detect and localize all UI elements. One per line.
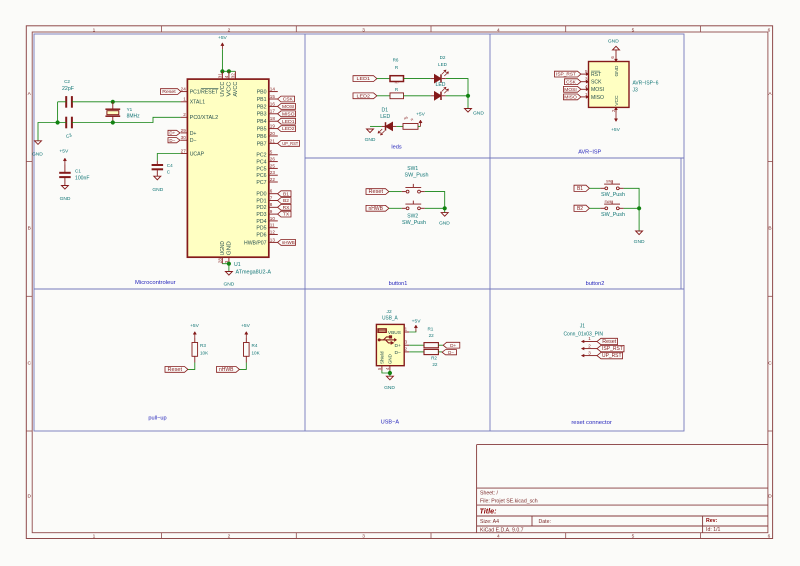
svg-text:3: 3 (362, 27, 365, 33)
svg-text:AVR−ISP−6: AVR−ISP−6 (633, 80, 659, 86)
svg-text:3: 3 (362, 534, 365, 540)
junction button2 (637, 206, 641, 210)
wire caps to GND (38, 123, 66, 141)
svg-text:10K: 10K (252, 350, 261, 355)
svg-text:R4: R4 (252, 343, 258, 348)
svg-text:20: 20 (270, 131, 276, 136)
J3 pin 3 SCK (581, 81, 589, 83)
wire Reset to SW1 (389, 191, 402, 193)
svg-text:PC7: PC7 (256, 180, 266, 186)
wire R7 to D3 (404, 95, 431, 97)
power +5V (C1) (64, 160, 66, 165)
global label B2 (button2) (574, 205, 589, 211)
diode D2 LED (435, 75, 442, 83)
svg-text:PD2: PD2 (256, 205, 266, 211)
U1 pin 27 UCAP (left) (181, 153, 188, 155)
USB icon (J2) (378, 329, 387, 333)
svg-text:PC4: PC4 (256, 160, 266, 166)
svg-text:UP_RST: UP_RST (602, 353, 622, 359)
svg-text:PD1: PD1 (256, 198, 266, 204)
resistor R6 (390, 76, 404, 82)
svg-text:2: 2 (228, 27, 231, 33)
capacitor C3 (65, 117, 67, 129)
section box divider vertical x=305 (304, 34, 306, 431)
svg-text:24: 24 (181, 87, 187, 92)
wire XTAL1 net (72, 101, 181, 103)
U1 pin 15 PB1 (right) (269, 98, 278, 100)
svg-text:GND: GND (227, 241, 233, 255)
global label Reset (J1) (597, 338, 618, 344)
svg-text:D+: D+ (450, 343, 456, 348)
U1 pin 26 PC4 (right) (269, 161, 278, 163)
wire VCC rail horizontal (222, 70, 235, 72)
svg-text:15: 15 (270, 94, 276, 99)
svg-text:UVCC: UVCC (220, 81, 226, 96)
svg-text:Reset: Reset (369, 189, 384, 195)
wire SW4 to junction (624, 207, 640, 209)
wire GND to D1 (370, 125, 382, 127)
svg-text:PC2: PC2 (256, 153, 266, 159)
wire SW1 to junction (425, 192, 445, 209)
svg-text:UGND: UGND (220, 241, 226, 255)
U1 pin 4 VCC (top) (228, 71, 230, 79)
svg-text:J2: J2 (387, 309, 392, 315)
ground symbol (button2) (636, 231, 643, 235)
svg-text:6: 6 (768, 27, 771, 33)
wire R5 to +5V (418, 125, 421, 127)
wire D+ to R1 (409, 344, 424, 346)
svg-text:22: 22 (429, 333, 435, 338)
svg-text:LED: LED (438, 62, 448, 67)
svg-text:PC1/RESET: PC1/RESET (190, 90, 219, 96)
SW4 pin stubs (600, 207, 604, 209)
global label B1 (button2) (574, 185, 589, 191)
svg-text:PC5: PC5 (256, 166, 266, 172)
J1 pin 2 (582, 348, 597, 350)
svg-text:1: 1 (93, 534, 96, 540)
svg-text:D: D (768, 493, 772, 499)
global label nHWB (PD7) (278, 240, 296, 246)
junction U1 ground (227, 262, 231, 266)
wire SW2 to junction (425, 207, 445, 209)
wire LED2 to R7 (377, 95, 390, 97)
U1 pin 23 PC6 (right) (269, 174, 278, 176)
svg-text:+5V: +5V (218, 35, 228, 41)
svg-text:7: 7 (270, 195, 273, 200)
global label Reset (pull-up) (165, 367, 188, 373)
svg-text:D+: D+ (190, 131, 197, 137)
svg-text:GND: GND (388, 354, 393, 364)
svg-text:PB3: PB3 (257, 112, 267, 118)
svg-text:MISO: MISO (282, 111, 295, 116)
U1 pin 24 PC1/RESET (left) (181, 91, 188, 93)
svg-text:22pF: 22pF (62, 86, 74, 92)
svg-text:Date:: Date: (539, 519, 551, 525)
svg-text:10: 10 (270, 216, 276, 221)
wire button2 to GND (638, 208, 640, 231)
wire XTAL2 net (72, 117, 181, 122)
U1 pin 12 PD6 (right) (269, 234, 278, 236)
J1 pin 3 (582, 355, 597, 357)
svg-text:8: 8 (270, 202, 273, 207)
U1 pin 1 XTAL1 (left) (181, 101, 188, 103)
svg-text:SW_Push: SW_Push (601, 192, 625, 198)
wire R1 to D+ label (438, 344, 443, 346)
svg-text:C1: C1 (75, 169, 81, 174)
U1 pin 10 PD4 (right) (269, 220, 278, 222)
U1 pin 32 AVCC (top) (234, 71, 236, 79)
section box: outer sheet regions (34, 34, 684, 431)
global label MISO (ISP) (564, 94, 581, 100)
svg-text:Rev:: Rev: (706, 518, 718, 524)
resistor R7 (390, 93, 404, 99)
J3 pin 4 MOSI (581, 88, 589, 90)
svg-text:D2: D2 (440, 55, 446, 60)
global label UP_RST (J1) (597, 352, 623, 358)
wire +5V to VCC pins (221, 49, 223, 71)
global label B2 (PD1) (278, 198, 291, 204)
wire VBUS to +5V (409, 331, 416, 333)
global label D- (USB) (442, 350, 456, 355)
global label UP_RST (PB7) (278, 141, 300, 147)
svg-text:B1: B1 (577, 186, 583, 192)
svg-text:USB_A: USB_A (382, 315, 398, 321)
svg-text:4: 4 (497, 534, 500, 540)
svg-text:Conn_01x03_PIN: Conn_01x03_PIN (563, 332, 603, 338)
svg-text:button1: button1 (389, 281, 408, 287)
resistor R5 (403, 124, 418, 130)
svg-text:SW2: SW2 (407, 214, 418, 220)
svg-text:C: C (768, 360, 772, 366)
global label LED2 (PB5) (278, 126, 296, 132)
svg-text:HWB/P07: HWB/P07 (244, 240, 267, 246)
svg-text:11: 11 (270, 223, 275, 228)
svg-text:Title:: Title: (480, 506, 498, 515)
svg-text:PC0/XTAL2: PC0/XTAL2 (190, 115, 219, 121)
wire nHWB to SW2 (389, 207, 402, 209)
J3 pin 6 GND (top) (615, 55, 617, 62)
svg-text:32: 32 (231, 73, 236, 79)
wire D- to R2 (409, 351, 424, 353)
ground symbol (D1) (367, 129, 374, 133)
svg-text:10K: 10K (200, 350, 209, 355)
svg-text:22: 22 (270, 177, 276, 182)
svg-text:+5V: +5V (59, 148, 69, 154)
ground symbol (leds) (465, 109, 472, 113)
global label nHWB (pull-up) (217, 367, 240, 373)
svg-text:6: 6 (270, 189, 273, 194)
svg-text:nHWB: nHWB (219, 367, 234, 373)
U1 pin 8 PD2 (right) (269, 206, 278, 208)
svg-text:GND: GND (634, 239, 645, 245)
section box divider horizontal y=158 (305, 157, 684, 159)
wire R3 to Reset (187, 363, 195, 370)
D1 pin stubs (382, 125, 386, 127)
svg-text:LED2: LED2 (282, 126, 295, 131)
U1 pin 17 PB3 (right) (269, 113, 278, 115)
wire J2 shield to gnd (382, 371, 390, 374)
svg-text:B: B (28, 226, 31, 232)
svg-text:28: 28 (217, 258, 222, 264)
svg-text:C4: C4 (167, 163, 173, 168)
svg-text:Reset: Reset (602, 339, 617, 345)
svg-text:AVCC: AVCC (233, 81, 239, 96)
global label LED1 (PB4) (278, 118, 296, 124)
svg-text:C: C (27, 360, 31, 366)
svg-text:MISO: MISO (591, 95, 604, 101)
svg-text:29: 29 (181, 128, 187, 133)
svg-text:Size: A4: Size: A4 (480, 519, 499, 525)
svg-text:1: 1 (93, 27, 96, 33)
J1 pin 1 (582, 341, 597, 343)
svg-text:B1: B1 (283, 191, 289, 197)
svg-text:5: 5 (270, 150, 273, 155)
wire D2 to corner (446, 79, 468, 96)
svg-text:13: 13 (270, 237, 276, 242)
svg-text:LED: LED (380, 114, 390, 120)
svg-text:2: 2 (183, 112, 186, 117)
svg-text:nHWB: nHWB (369, 206, 384, 212)
capacitor C4 (156, 161, 158, 165)
svg-text:pull−up: pull−up (148, 416, 166, 422)
global label MOSI (PB2) (278, 104, 296, 110)
svg-text:reset connector: reset connector (571, 420, 612, 426)
global label MOSI (ISP) (564, 86, 581, 92)
svg-text:MISO: MISO (564, 95, 577, 100)
svg-text:PD4: PD4 (256, 219, 266, 225)
svg-text:SW4: SW4 (605, 200, 612, 204)
svg-text:J3: J3 (633, 87, 639, 93)
svg-text:6: 6 (768, 534, 771, 540)
global label nHWB (button1) (366, 205, 389, 211)
junction VCC (227, 69, 231, 73)
svg-text:PB1: PB1 (257, 97, 267, 103)
U1 pin 30 D− (left) (181, 139, 188, 141)
global label CSK (PB1) (278, 96, 295, 102)
connector J3 body (589, 62, 630, 108)
svg-text:8MHz: 8MHz (127, 114, 140, 120)
svg-text:VBUS: VBUS (388, 330, 402, 336)
svg-text:18: 18 (270, 116, 276, 121)
svg-text:GND: GND (152, 187, 163, 193)
U1 pin 3 GND (bottom) (228, 257, 230, 264)
svg-text:MOSI: MOSI (282, 104, 295, 109)
junction UVCC (220, 69, 224, 73)
section box divider horizontal y=289 (34, 288, 684, 290)
svg-text:MOSI: MOSI (591, 87, 604, 93)
svg-text:B2: B2 (577, 206, 583, 212)
svg-text:File: Projet SE.kicad_sch: File: Projet SE.kicad_sch (480, 498, 538, 504)
svg-text:D+: D+ (395, 343, 402, 349)
svg-text:2: 2 (228, 534, 231, 540)
svg-text:RST: RST (591, 72, 601, 78)
svg-text:1: 1 (183, 97, 186, 102)
svg-text:GND: GND (32, 151, 43, 157)
J3 pin 2 VCC (bottom) (615, 107, 617, 112)
svg-text:R6: R6 (393, 57, 399, 62)
global label B1 (PD0) (278, 191, 291, 197)
svg-text:23: 23 (270, 170, 276, 175)
resistor R3 (194, 338, 196, 343)
svg-text:Y1: Y1 (127, 107, 133, 112)
global label LED2 (leds) (353, 93, 377, 99)
svg-text:CSK: CSK (566, 79, 577, 84)
svg-text:R7: R7 (395, 80, 399, 84)
J3 pin 1 MISO (581, 96, 589, 98)
svg-text:D−: D− (190, 138, 197, 144)
svg-text:PB5: PB5 (257, 127, 267, 133)
U1 pin 28 UGND (bottom) (221, 257, 223, 264)
global label LED1 (leds) (353, 76, 377, 82)
junction caps left (56, 120, 60, 124)
wire junction to GND (467, 96, 469, 109)
diode D3 LED (435, 92, 442, 100)
svg-text:GND: GND (384, 385, 395, 391)
wire R6 to D2 (404, 78, 431, 80)
ground symbol (USB) (386, 376, 393, 380)
U1 pin 22 PC7 (right) (269, 181, 278, 183)
svg-text:XTAL1: XTAL1 (190, 100, 206, 106)
svg-text:TX: TX (283, 212, 290, 218)
svg-text:MOSI: MOSI (564, 87, 577, 92)
svg-text:J1: J1 (580, 324, 586, 330)
U1 pin 16 PB2 (right) (269, 105, 278, 107)
wire SW3 to junction (624, 188, 640, 208)
svg-text:+5V: +5V (241, 323, 251, 329)
global label Reset (PC1) (161, 89, 181, 95)
svg-text:5: 5 (632, 27, 635, 33)
svg-text:Microcontroleur: Microcontroleur (135, 280, 176, 286)
svg-text:B: B (768, 226, 771, 232)
svg-text:D1: D1 (382, 108, 389, 114)
wire button1 to GND (444, 208, 446, 212)
svg-text:16: 16 (270, 101, 276, 106)
svg-text:R3: R3 (200, 343, 206, 348)
svg-text:D−: D− (448, 350, 454, 355)
power +5V (MCU VCC rail) (221, 44, 223, 49)
svg-text:SW3: SW3 (606, 179, 613, 183)
global label CSK (ISP) (565, 79, 581, 85)
svg-text:Reset: Reset (162, 89, 176, 94)
svg-text:C2: C2 (64, 79, 70, 84)
svg-text:LED1: LED1 (357, 76, 371, 82)
svg-text:21: 21 (270, 138, 276, 143)
svg-text:PB2: PB2 (257, 104, 267, 110)
J2 pin 5 Shield (bottom) (381, 366, 383, 371)
J2 pin 3 D+ (404, 344, 409, 346)
svg-text:LED1: LED1 (282, 119, 295, 124)
SW2 pin stubs (402, 207, 406, 209)
svg-text:ISP_RST: ISP_RST (602, 346, 623, 352)
svg-text:27: 27 (181, 148, 187, 153)
svg-text:31: 31 (218, 73, 223, 79)
resistor R1 (424, 343, 438, 348)
U1 pin 13 HWB/P07 (right) (269, 241, 278, 243)
svg-text:19: 19 (270, 124, 276, 129)
switch SW4 (605, 207, 608, 210)
svg-text:22: 22 (432, 362, 438, 367)
wire R4 to nHWB (239, 363, 247, 370)
U1 pin 9 PD3 (right) (269, 213, 278, 215)
svg-text:D−: D− (395, 350, 402, 356)
svg-text:RX: RX (283, 205, 291, 211)
svg-text:30: 30 (181, 135, 187, 140)
junction Y1 top (111, 100, 115, 104)
U1 pin 7 PD1 (right) (269, 200, 278, 202)
U1 pin 18 PB4 (right) (269, 120, 278, 122)
svg-text:+5V: +5V (190, 323, 200, 329)
global label D- (U1) (168, 138, 180, 143)
J2 pin 1 VBUS (404, 331, 409, 333)
svg-text:SW1: SW1 (407, 166, 418, 172)
global label ISP_RST (J1) (597, 345, 624, 351)
svg-text:D−: D− (169, 138, 175, 143)
capacitor C2 (65, 96, 67, 108)
svg-text:GND: GND (60, 196, 71, 202)
section box: button2 right edge (680, 158, 682, 289)
svg-text:D+: D+ (169, 131, 175, 136)
junction leds GND (466, 94, 470, 98)
global label TX (PD3) (278, 211, 291, 217)
svg-text:ATmega8U2-A: ATmega8U2-A (236, 269, 272, 275)
svg-text:PD5: PD5 (256, 226, 266, 232)
svg-text:5: 5 (632, 534, 635, 540)
svg-text:SW_Push: SW_Push (601, 212, 625, 218)
ground symbol (ISP, up) (613, 46, 620, 50)
svg-text:GND: GND (439, 220, 450, 226)
svg-text:PD6: PD6 (256, 232, 266, 238)
capacitor C1 (64, 165, 66, 173)
svg-text:R2: R2 (431, 356, 437, 361)
svg-text:SCK: SCK (591, 80, 602, 86)
diode D1 LED (386, 122, 393, 130)
svg-text:CSK: CSK (283, 97, 294, 103)
U1 pin 6 PD0 (right) (269, 193, 278, 195)
svg-text:GND: GND (608, 39, 619, 45)
ground symbol (C1) (61, 186, 68, 190)
svg-text:9: 9 (270, 209, 273, 214)
wire D1 to R5 (396, 125, 403, 127)
svg-text:SW_Push: SW_Push (405, 172, 429, 178)
svg-text:GND: GND (223, 282, 234, 288)
svg-text:U1: U1 (234, 262, 241, 268)
svg-text:D: D (27, 493, 31, 499)
U1 pin 25 PC5 (right) (269, 167, 278, 169)
svg-text:PD3: PD3 (256, 212, 266, 218)
svg-text:12: 12 (270, 229, 276, 234)
microcontroller U1 body (187, 79, 268, 257)
svg-text:GND: GND (473, 111, 484, 117)
U1 pin 31 UVCC (top) (221, 71, 223, 79)
wire J2 gnd down (389, 371, 391, 377)
svg-text:PC6: PC6 (256, 173, 266, 179)
SW3 pin stubs (600, 187, 604, 189)
power +5V (leds) (420, 122, 422, 127)
section box divider vertical x=490 (489, 34, 491, 431)
svg-text:UCAP: UCAP (190, 151, 205, 157)
D2 pin stubs (431, 78, 435, 80)
svg-text:Sheet: /: Sheet: / (480, 490, 498, 496)
svg-text:VCC: VCC (614, 95, 620, 106)
connector J2 body (376, 324, 404, 365)
svg-text:UP_RST: UP_RST (282, 141, 298, 146)
svg-text:+5V: +5V (611, 127, 621, 133)
svg-text:SW_Push: SW_Push (402, 220, 426, 226)
global label MISO (PB3) (278, 111, 296, 117)
wire B2 to SW4 (589, 207, 600, 209)
junction USB gnd (388, 371, 392, 375)
U1 pin 11 PD5 (right) (269, 227, 278, 229)
